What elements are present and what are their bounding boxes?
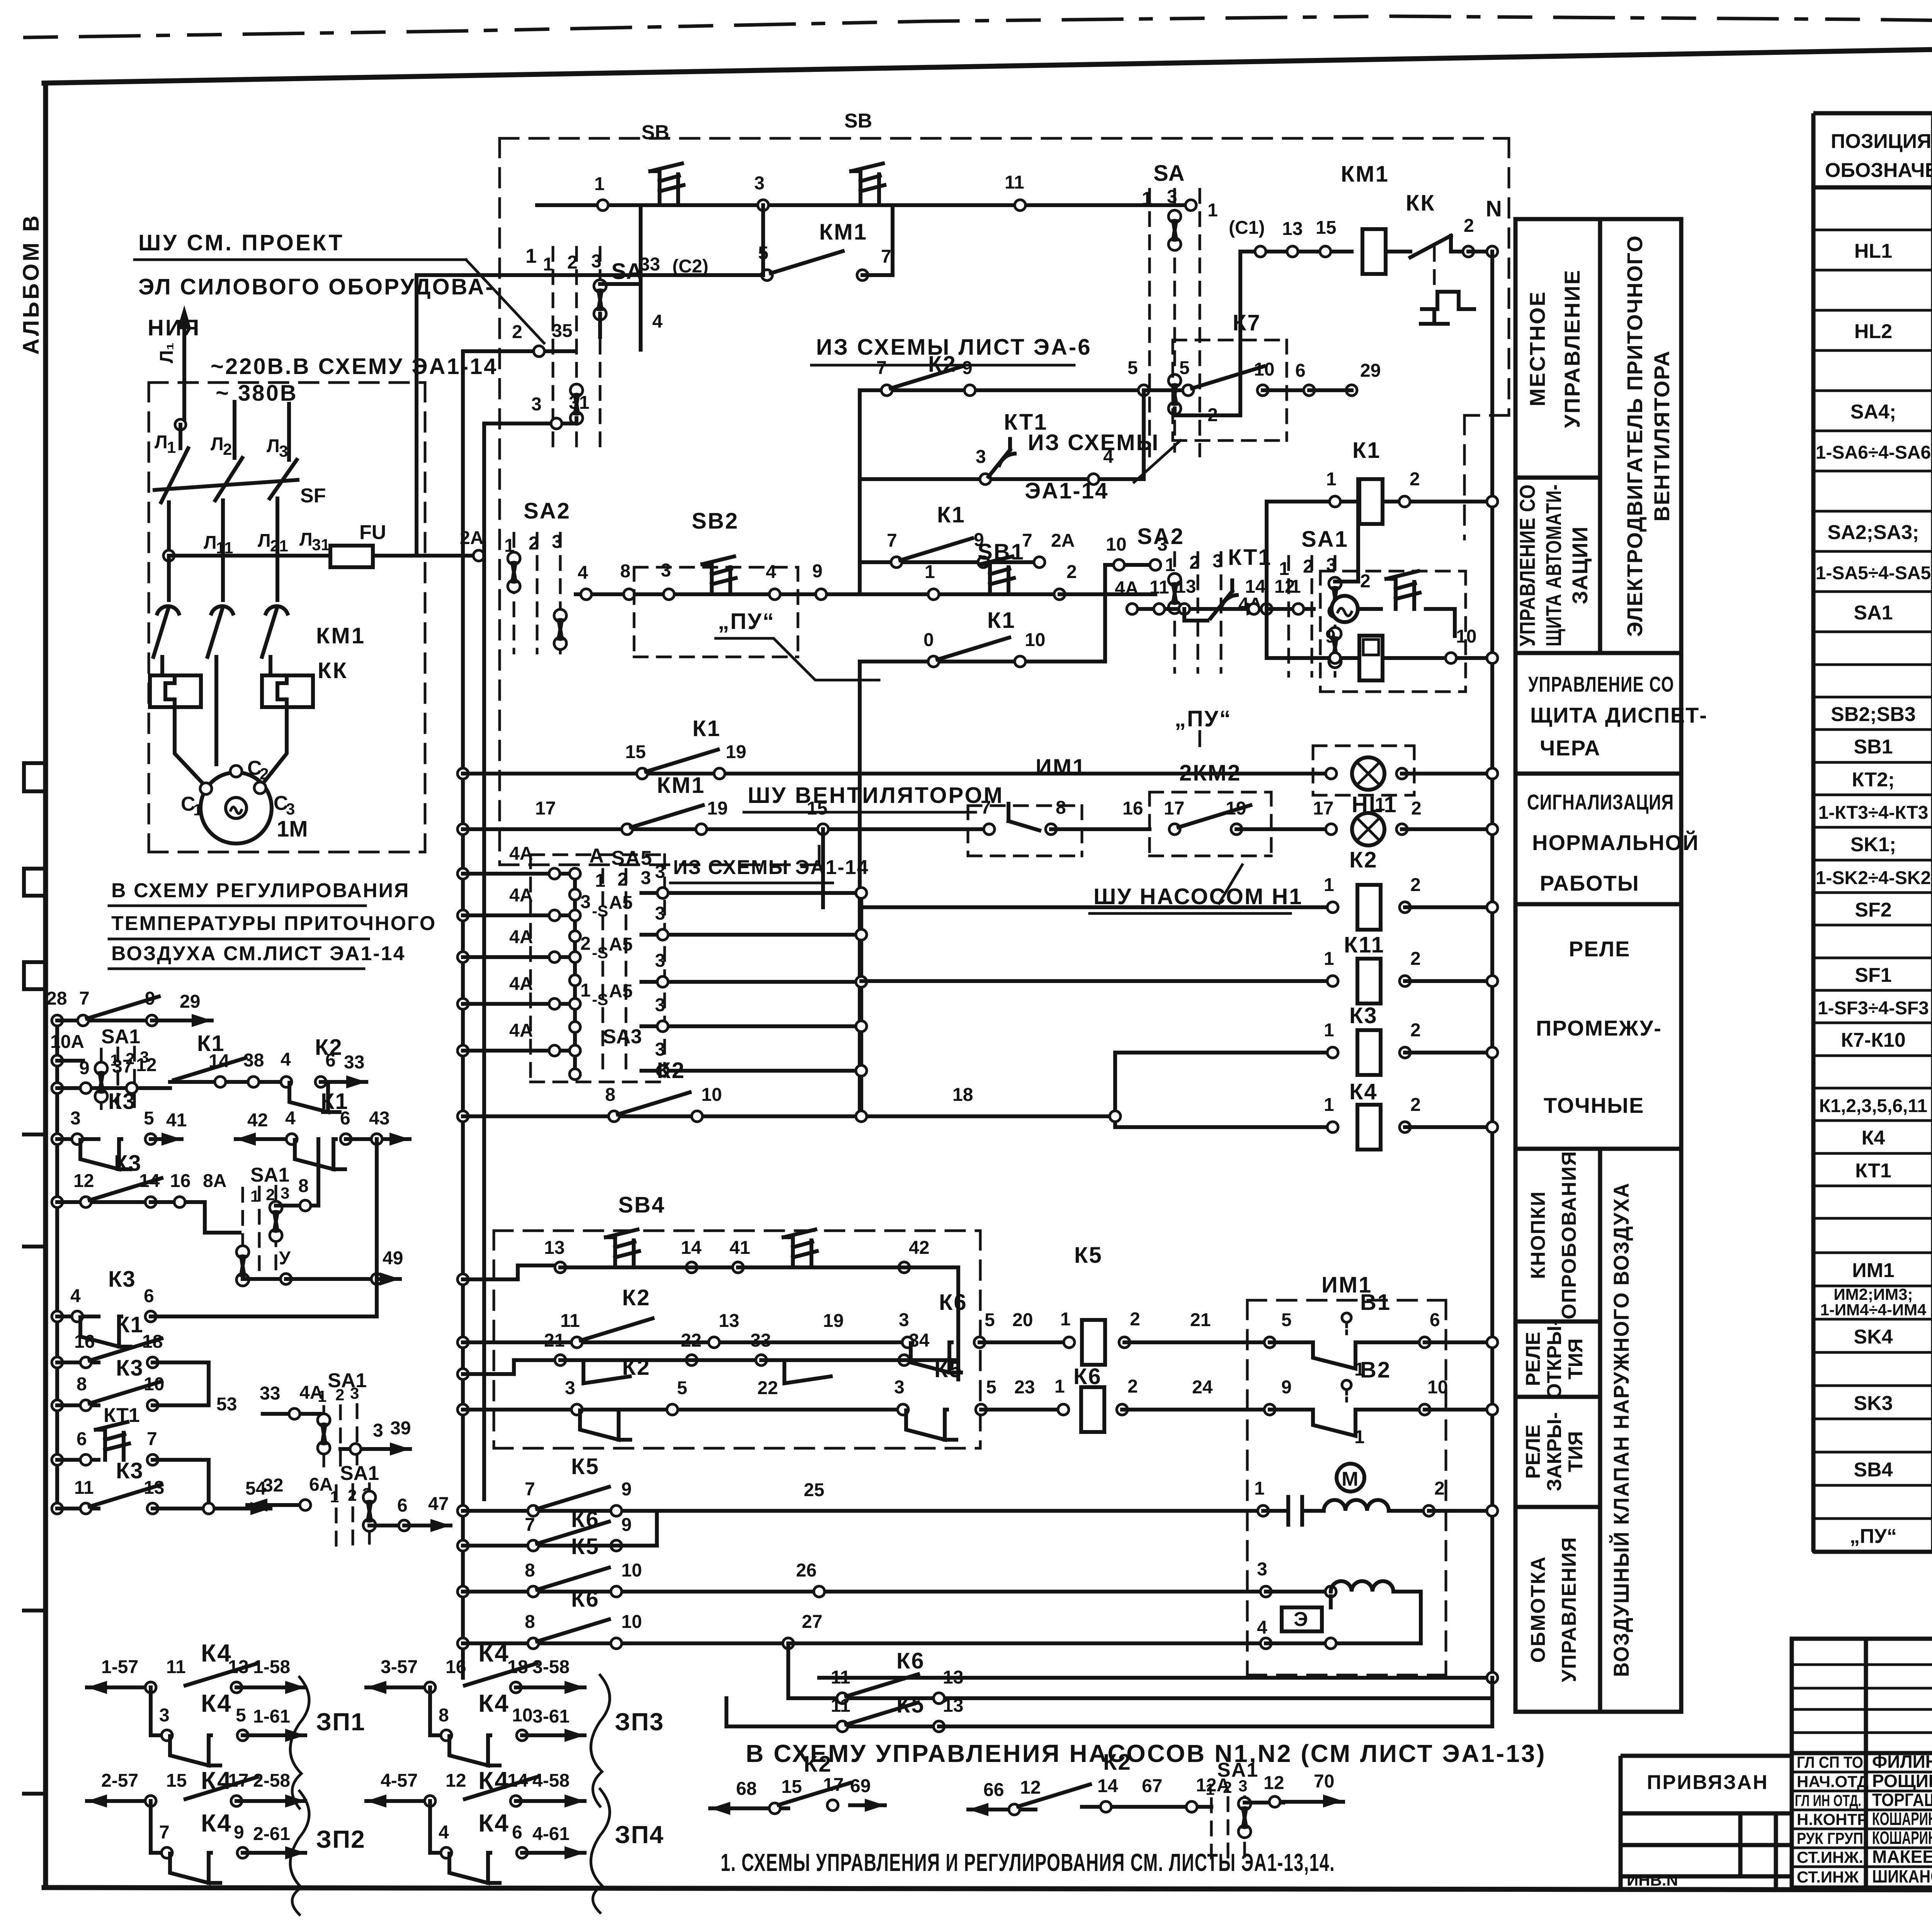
relay coil K6 <box>1081 1387 1104 1432</box>
svg-text:SK4: SK4 <box>1854 1326 1893 1348</box>
svg-text:ГЛ ИН ОТД.: ГЛ ИН ОТД. <box>1795 1791 1861 1810</box>
svg-text:2: 2 <box>512 322 522 342</box>
svg-text:7: 7 <box>881 247 891 267</box>
SB4 dashed box with two button rows <box>457 1192 980 1448</box>
svg-text:3: 3 <box>899 1310 909 1330</box>
svg-text:11: 11 <box>560 1311 580 1331</box>
R19b row y=3648: 3 K2 5 22 | 3 K5 5 23 K6coil 24 <box>457 1355 1270 1440</box>
row 10A y=2745 <box>52 1055 63 1066</box>
svg-text:SB: SB <box>641 121 669 144</box>
svg-text:N: N <box>1486 196 1502 221</box>
svg-text:3: 3 <box>286 800 295 818</box>
svg-text:СИГНАЛИЗАЦИЯ: СИГНАЛИЗАЦИЯ <box>1527 790 1674 814</box>
svg-text:3: 3 <box>655 951 665 971</box>
svg-text:SF: SF <box>300 485 326 507</box>
svg-text:РЕЛЕ: РЕЛЕ <box>1522 1332 1544 1386</box>
limit switch B1 <box>1270 1342 1425 1369</box>
SA dashed col mid (x1431..1550) with 33 4 <box>543 205 708 456</box>
svg-text:3: 3 <box>1213 551 1223 571</box>
svg-text:ВОЗДУХА СМ.ЛИСТ ЭА1-14: ВОЗДУХА СМ.ЛИСТ ЭА1-14 <box>111 942 406 965</box>
svg-text:4: 4 <box>1103 447 1114 467</box>
svg-text:К5: К5 <box>1074 1243 1103 1268</box>
NO contact K2 (row 18) <box>618 1092 690 1114</box>
svg-text:28: 28 <box>46 988 67 1009</box>
svg-text:SF1: SF1 <box>1855 964 1891 986</box>
KT1 lower block: contact row y=1576 and coil row y=1703 <box>1115 502 1498 692</box>
svg-text:ОБМОТКА: ОБМОТКА <box>1527 1556 1549 1663</box>
svg-text:Л: Л <box>267 436 280 456</box>
svg-text:К1: К1 <box>692 716 721 741</box>
wire: left rail A (net 2) <box>463 351 576 1678</box>
В СХЕМУ РЕГУЛИРОВАНИЯ note <box>109 879 436 969</box>
row y=2948: 3 K3 5 41-> <-42 4 K1 6 43 <box>52 1134 63 1145</box>
HL1 row y=2002 <box>457 706 1498 817</box>
time relay coil KT1 <box>1359 636 1383 680</box>
svg-text:ЧЕРА: ЧЕРА <box>1540 736 1601 760</box>
NC contact K6 <box>911 1342 961 1372</box>
svg-text:4А: 4А <box>1115 578 1138 599</box>
svg-text:13: 13 <box>1175 577 1196 597</box>
svg-text:SK3: SK3 <box>1854 1392 1893 1415</box>
sheet frame <box>43 83 48 1888</box>
svg-text:SK1;: SK1; <box>1850 833 1896 856</box>
NO contact K5 (7-9) <box>537 1487 609 1509</box>
svg-text:8А: 8А <box>203 1171 226 1191</box>
push button SB (second) <box>851 163 884 201</box>
svg-text:11: 11 <box>166 1657 186 1677</box>
svg-text:К2: К2 <box>1103 1750 1132 1775</box>
svg-text:Л: Л <box>204 532 217 553</box>
svg-text:3: 3 <box>661 560 671 581</box>
svg-text:16: 16 <box>74 1332 95 1352</box>
svg-text:КМ1: КМ1 <box>819 219 867 245</box>
svg-text:СТ.ИНЖ: СТ.ИНЖ <box>1797 1868 1859 1886</box>
svg-text:13: 13 <box>719 1311 739 1331</box>
svg-text:4А: 4А <box>509 885 533 906</box>
svg-text:1М: 1М <box>277 816 308 842</box>
binding tick marks on left edge <box>24 763 46 989</box>
svg-text:10: 10 <box>701 1085 722 1105</box>
R18 row y=2889: 8 K2 10 ... 18 <box>457 1058 1121 1122</box>
svg-text:„ПУ“: „ПУ“ <box>1175 706 1232 731</box>
relay coil K1 <box>1359 479 1383 524</box>
svg-text:14: 14 <box>1097 1776 1118 1796</box>
svg-text:12: 12 <box>1020 1777 1041 1798</box>
svg-text:НИЯ: НИЯ <box>148 315 201 340</box>
R5 y=1096 wire 3-31 <box>484 393 589 1499</box>
svg-text:УПРАВЛЕНИЕ: УПРАВЛЕНИЕ <box>1560 269 1584 428</box>
svg-text:2: 2 <box>529 533 539 554</box>
actuator motor M (IM1) <box>1337 1464 1364 1492</box>
svg-text:SA2: SA2 <box>524 498 571 524</box>
relay coil K3 <box>1357 1030 1381 1075</box>
time contact KT1 <box>988 439 1015 477</box>
svg-text:3: 3 <box>641 868 651 888</box>
svg-text:УПРАВЛЕНИЕ СО: УПРАВЛЕНИЕ СО <box>1515 484 1539 646</box>
svg-text:КТ1: КТ1 <box>104 1404 140 1427</box>
svg-text:32: 32 <box>263 1475 283 1496</box>
arrow up wire Л1 <box>156 305 191 425</box>
svg-text:10: 10 <box>1025 630 1045 650</box>
svg-text:SB4: SB4 <box>1854 1459 1893 1481</box>
group <-32 6A SA1 6 47-> <box>247 1498 267 1512</box>
svg-text:2: 2 <box>1411 798 1422 819</box>
NC contact K5 <box>906 1410 956 1440</box>
row y=3778: 6 KT1 7 <box>52 1454 63 1465</box>
svg-text:7: 7 <box>876 358 887 378</box>
svg-text:9: 9 <box>621 1515 632 1535</box>
svg-text:ЩИТА АВТОМАТИ-: ЩИТА АВТОМАТИ- <box>1541 484 1566 646</box>
svg-text:9: 9 <box>145 988 155 1009</box>
K2/K11/K3/K4 coils column right <box>861 847 1498 1150</box>
svg-text:2: 2 <box>1128 1376 1138 1397</box>
svg-text:2: 2 <box>580 934 591 954</box>
svg-text:К4: К4 <box>478 1639 510 1667</box>
svg-text:К4: К4 <box>478 1809 510 1837</box>
svg-text:ВОЗДУШНЫЙ КЛАПАН НАРУЖНОГО: ВОЗДУШНЫЙ КЛАПАН НАРУЖНОГО ВОЗДУХА <box>1609 1182 1633 1677</box>
svg-text:-S: -S <box>592 944 608 962</box>
svg-text:1: 1 <box>1354 1427 1365 1447</box>
svg-text:1: 1 <box>1324 875 1334 895</box>
svg-text:ЭЛ СИЛОВОГО ОБОРУДОВА-: ЭЛ СИЛОВОГО ОБОРУДОВА- <box>138 274 495 299</box>
svg-text:11: 11 <box>831 1667 850 1688</box>
svg-text:22: 22 <box>757 1378 778 1398</box>
svg-text:19: 19 <box>726 742 746 762</box>
4A rows into SA5 column <box>457 844 642 1080</box>
svg-text:СТ.ИНЖ.: СТ.ИНЖ. <box>1797 1848 1863 1866</box>
svg-text:2: 2 <box>1410 1095 1421 1115</box>
svg-text:ШУ ВЕНТИЛЯТОРОМ: ШУ ВЕНТИЛЯТОРОМ <box>748 783 1004 808</box>
svg-text:ЩИТА ДИСПЕТ-: ЩИТА ДИСПЕТ- <box>1530 703 1708 727</box>
svg-text:1: 1 <box>1254 1478 1265 1499</box>
svg-text:SA4;: SA4; <box>1850 401 1896 423</box>
svg-text:В1: В1 <box>1360 1290 1391 1315</box>
svg-text:2: 2 <box>567 252 578 273</box>
svg-text:5: 5 <box>1281 1310 1292 1330</box>
push button SB <box>650 163 684 201</box>
svg-text:УПРАВЛЕНИЕ СО: УПРАВЛЕНИЕ СО <box>1528 672 1674 696</box>
capacitor (IM1) <box>1263 1497 1324 1525</box>
push button SB4.1 <box>606 1230 639 1267</box>
svg-text:К6: К6 <box>571 1587 600 1612</box>
svg-text:SB1: SB1 <box>1854 736 1893 758</box>
NO contact K2 (66-67) <box>1018 1784 1090 1806</box>
svg-text:6: 6 <box>397 1495 408 1516</box>
svg-text:19: 19 <box>707 798 728 819</box>
svg-text:41: 41 <box>730 1238 750 1258</box>
svg-text:6: 6 <box>340 1108 350 1129</box>
svg-text:1: 1 <box>1207 200 1218 221</box>
svg-text:1: 1 <box>330 1488 339 1506</box>
svg-text:13: 13 <box>1282 219 1303 239</box>
svg-text:8: 8 <box>298 1176 309 1196</box>
svg-text:К2: К2 <box>804 1752 832 1777</box>
K1 coil row y=1298 <box>1267 438 1498 536</box>
svg-text:5: 5 <box>986 1377 997 1398</box>
svg-text:2-58: 2-58 <box>253 1770 290 1791</box>
svg-text:1: 1 <box>318 1387 327 1405</box>
svg-text:2: 2 <box>1303 556 1313 577</box>
svg-text:4: 4 <box>439 1822 449 1843</box>
svg-text:К3: К3 <box>114 1151 142 1176</box>
fuse FU <box>330 546 373 567</box>
R19a row y=3474: 11 K2 13 19 | 3 K6 5 20 K5coil 21 <box>457 1243 1270 1372</box>
svg-text:1-58: 1-58 <box>253 1657 290 1677</box>
svg-text:В СХЕМУ РЕГУЛИРОВАНИЯ: В СХЕМУ РЕГУЛИРОВАНИЯ <box>111 879 410 902</box>
svg-text:HL1: HL1 <box>1854 240 1892 262</box>
svg-text:ШИКАНОВА: ШИКАНОВА <box>1872 1866 1932 1886</box>
ИЗ СХЕМЫ ЛИСТ ЭА-6 <box>811 335 1092 365</box>
svg-text:ЗП3: ЗП3 <box>615 1708 664 1736</box>
top rail R1 y=531 <box>537 110 1196 211</box>
svg-text:А5: А5 <box>609 981 633 1002</box>
svg-text:У: У <box>279 1248 291 1269</box>
mid group: 33 4A SA1 3 39-> <box>263 1412 321 1416</box>
svg-text:Л: Л <box>258 531 271 551</box>
svg-text:К1: К1 <box>1352 438 1381 463</box>
svg-text:11: 11 <box>1005 172 1024 193</box>
SB1 row y=1538 right part <box>860 534 1168 600</box>
svg-text:(С2): (С2) <box>672 256 708 277</box>
svg-text:8: 8 <box>439 1705 449 1726</box>
svg-text:11: 11 <box>74 1478 94 1498</box>
row y=3637: 8 K3 10 53 <box>52 1400 63 1411</box>
svg-text:1: 1 <box>193 801 202 819</box>
NO contact K6 (8-10) <box>537 1619 609 1641</box>
svg-text:1: 1 <box>167 438 176 456</box>
svg-text:13: 13 <box>144 1478 164 1498</box>
svg-text:3: 3 <box>279 442 288 460</box>
svg-text:35: 35 <box>552 321 572 341</box>
svg-text:ЗП4: ЗП4 <box>615 1821 664 1849</box>
thermal relay KK heaters <box>150 675 313 707</box>
svg-text:3: 3 <box>373 1420 383 1441</box>
svg-text:8: 8 <box>77 1374 87 1395</box>
svg-text:3: 3 <box>655 995 665 1015</box>
svg-text:1: 1 <box>1375 794 1385 815</box>
svg-text:3: 3 <box>1257 1559 1267 1580</box>
svg-text:ЗП1: ЗП1 <box>316 1708 366 1736</box>
svg-text:ТИЯ: ТИЯ <box>1565 1431 1587 1473</box>
SA2 right col <box>1137 524 1267 672</box>
svg-text:КК: КК <box>318 658 348 683</box>
relay coil K11 <box>1357 959 1381 1003</box>
svg-text:10: 10 <box>1106 534 1126 555</box>
svg-text:SA1: SA1 <box>101 1026 140 1048</box>
svg-text:АЛЬБОМ В: АЛЬБОМ В <box>19 213 44 355</box>
svg-text:ГЛ СП ТО: ГЛ СП ТО <box>1797 1753 1863 1771</box>
svg-text:4-58: 4-58 <box>532 1770 570 1791</box>
R3 y=651 KM1 coil row (С1)..N <box>1229 162 1502 415</box>
svg-text:ТЕМПЕРАТУРЫ ПРИТОЧНОГО: ТЕМПЕРАТУРЫ ПРИТОЧНОГО <box>111 912 436 935</box>
NO contact K5 (11-13) <box>846 1702 918 1725</box>
svg-text:38: 38 <box>243 1050 264 1071</box>
svg-text:РУК ГРУП: РУК ГРУП <box>1797 1829 1863 1847</box>
svg-text:К4: К4 <box>1862 1127 1885 1149</box>
svg-text:2: 2 <box>1130 1309 1140 1330</box>
svg-text:4: 4 <box>1257 1617 1267 1638</box>
svg-text:SB4: SB4 <box>618 1192 665 1218</box>
NO contact KM1 (self-hold) <box>771 251 843 273</box>
right "3" rows from SA5 to ladder bus x=2229 <box>641 829 867 1116</box>
svg-text:SA: SA <box>1153 161 1185 186</box>
svg-text:ТИЯ: ТИЯ <box>1565 1338 1587 1380</box>
svg-text:РАБОТЫ: РАБОТЫ <box>1540 871 1639 895</box>
svg-text:SA1: SA1 <box>328 1369 367 1392</box>
svg-text:Э: Э <box>1294 1608 1308 1631</box>
NO contact K2 (top) <box>891 366 963 388</box>
svg-text:3: 3 <box>1238 1777 1247 1795</box>
svg-text:1. СХЕМЫ УПРАВЛЕНИЯ И РЕГУЛ: 1. СХЕМЫ УПРАВЛЕНИЯ И РЕГУЛИРОВАНИЯ СМ. … <box>721 1849 1335 1876</box>
svg-text:1-61: 1-61 <box>253 1706 290 1727</box>
contactor coil KM1 <box>1362 229 1386 274</box>
svg-text:К4: К4 <box>478 1689 510 1717</box>
svg-text:К3: К3 <box>116 1458 144 1483</box>
svg-text:3: 3 <box>350 1384 359 1402</box>
svg-text:М: М <box>1342 1468 1358 1490</box>
svg-text:70: 70 <box>1314 1771 1334 1792</box>
svg-text:16: 16 <box>446 1657 466 1677</box>
svg-text:2: 2 <box>1223 1778 1232 1796</box>
svg-text:3: 3 <box>552 532 562 552</box>
svg-text:7: 7 <box>525 1515 535 1535</box>
svg-text:47: 47 <box>428 1494 449 1514</box>
time contact KT1 (test row) <box>96 1422 129 1460</box>
svg-text:8: 8 <box>1056 798 1066 818</box>
svg-text:17: 17 <box>1164 798 1184 819</box>
svg-text:1: 1 <box>526 245 537 267</box>
relay coil K5 <box>1082 1320 1105 1365</box>
svg-text:МЕСТНОЕ: МЕСТНОЕ <box>1525 291 1549 406</box>
svg-text:3: 3 <box>655 862 665 882</box>
svg-text:КК: КК <box>1406 190 1435 216</box>
svg-text:67: 67 <box>1142 1776 1162 1796</box>
svg-text:8: 8 <box>525 1612 535 1632</box>
vertical joining k2/kt1/k1 rows x=2225 continues to SB2 row <box>858 562 862 594</box>
svg-text:9: 9 <box>1281 1377 1292 1398</box>
svg-text:33: 33 <box>260 1383 280 1404</box>
svg-text:4-57: 4-57 <box>381 1770 418 1791</box>
svg-text:К6: К6 <box>939 1290 968 1315</box>
svg-text:К7-К10: К7-К10 <box>1841 1029 1906 1051</box>
svg-text:31: 31 <box>312 536 330 554</box>
time contact KT1 (lower) <box>1211 580 1237 618</box>
svg-text:К1: К1 <box>116 1312 144 1337</box>
svg-text:-S: -S <box>592 902 608 920</box>
NO contact 2KM2 <box>1179 805 1250 827</box>
SA5 ladder rows 4A x1198 -> col <box>531 845 665 1082</box>
row A y=2641: 28 7 blade 9 29-> <box>52 1015 63 1026</box>
svg-text:А5: А5 <box>609 934 633 955</box>
SA2 left col <box>504 498 571 653</box>
svg-text:К2: К2 <box>1349 847 1378 872</box>
svg-text:10: 10 <box>1456 626 1476 647</box>
svg-text:13: 13 <box>943 1667 963 1688</box>
svg-text:К2: К2 <box>657 1058 685 1083</box>
svg-text:13: 13 <box>544 1238 565 1258</box>
svg-text:4: 4 <box>766 562 776 582</box>
svg-text:1-SA5÷4-SA5: 1-SA5÷4-SA5 <box>1816 563 1931 583</box>
svg-text:1-ИМ4÷4-ИМ4: 1-ИМ4÷4-ИМ4 <box>1820 1301 1927 1319</box>
wire: right bus N <box>1490 252 1494 1678</box>
svg-text:42: 42 <box>247 1110 268 1131</box>
signal lamp HL1 <box>1352 757 1384 790</box>
svg-text:1: 1 <box>1054 1376 1065 1397</box>
svg-text:3-58: 3-58 <box>532 1657 570 1677</box>
svg-text:ТОРГАШОВ: ТОРГАШОВ <box>1872 1790 1932 1810</box>
svg-text:SB2;SB3: SB2;SB3 <box>1831 703 1916 726</box>
svg-text:20: 20 <box>1012 1310 1033 1330</box>
relay coil K4 <box>1357 1105 1381 1150</box>
signal lamp HL2 <box>1352 813 1384 845</box>
svg-text:„ПУ“: „ПУ“ <box>1850 1525 1897 1548</box>
svg-text:2: 2 <box>1410 469 1420 490</box>
svg-text:1: 1 <box>1060 1309 1071 1330</box>
svg-text:12: 12 <box>1264 1773 1284 1793</box>
svg-text:4: 4 <box>281 1049 291 1070</box>
NO contact K2 (row 19) <box>581 1318 653 1340</box>
svg-text:25: 25 <box>804 1480 824 1500</box>
row y=3526: 16 K1 18 <box>52 1357 63 1368</box>
svg-text:2: 2 <box>260 765 269 783</box>
svg-text:РОЩИН: РОЩИН <box>1872 1771 1932 1791</box>
svg-text:69: 69 <box>850 1776 871 1796</box>
svg-text:2: 2 <box>1464 216 1474 236</box>
NO contact K2 (68-69) <box>779 1783 850 1805</box>
svg-text:19: 19 <box>1226 798 1246 819</box>
svg-text:68: 68 <box>736 1779 757 1799</box>
svg-text:К1: К1 <box>987 608 1016 633</box>
svg-text:2А: 2А <box>1051 531 1075 551</box>
svg-text:7: 7 <box>147 1429 157 1449</box>
svg-text:SA: SA <box>611 259 643 284</box>
svg-text:Л: Л <box>299 529 313 550</box>
row y=3407: 4 K3 6 long <box>52 1311 63 1322</box>
svg-text:3: 3 <box>281 1184 289 1202</box>
svg-text:9: 9 <box>621 1479 632 1500</box>
svg-text:10: 10 <box>1427 1377 1448 1398</box>
svg-text:ПРОМЕЖУ-: ПРОМЕЖУ- <box>1536 1016 1662 1040</box>
svg-text:53: 53 <box>216 1394 237 1415</box>
svg-text:16: 16 <box>170 1171 190 1191</box>
svg-text:13: 13 <box>943 1696 963 1716</box>
svg-text:К5: К5 <box>934 1357 963 1382</box>
svg-text:2КМ2: 2КМ2 <box>1179 760 1241 786</box>
svg-text:6: 6 <box>1430 1310 1440 1330</box>
svg-text:1: 1 <box>1324 1020 1334 1041</box>
svg-text:10: 10 <box>144 1374 164 1395</box>
svg-text:21: 21 <box>270 537 288 555</box>
svg-text:К4: К4 <box>201 1639 232 1667</box>
svg-text:24: 24 <box>1192 1377 1213 1398</box>
svg-text:5: 5 <box>1128 358 1138 378</box>
svg-text:6: 6 <box>325 1050 336 1071</box>
svg-text:~220В.В СХЕМУ ЭА1-14: ~220В.В СХЕМУ ЭА1-14 <box>211 354 498 379</box>
svg-text:SA1: SA1 <box>250 1164 289 1186</box>
NO contact K1 <box>900 538 972 560</box>
svg-text:К3: К3 <box>108 1267 136 1292</box>
svg-text:15: 15 <box>1316 218 1336 238</box>
svg-text:10: 10 <box>621 1612 642 1632</box>
svg-text:17: 17 <box>228 1770 248 1791</box>
svg-text:2-61: 2-61 <box>253 1824 290 1844</box>
svg-text:14: 14 <box>507 1770 528 1791</box>
svg-text:7: 7 <box>887 531 897 551</box>
svg-text:18: 18 <box>142 1332 163 1352</box>
svg-text:6: 6 <box>144 1286 154 1306</box>
svg-text:1: 1 <box>1206 1780 1214 1798</box>
svg-text:31: 31 <box>569 393 589 413</box>
